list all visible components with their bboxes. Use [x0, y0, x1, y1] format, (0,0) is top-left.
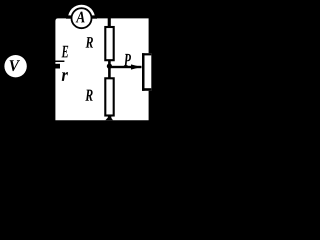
wire: wiper tap from junction toward potentiometer — [111, 66, 142, 68]
ammeter A (body circle) — [72, 8, 92, 28]
voltmeter V (body disc) — [4, 55, 26, 77]
label "R" for resistor R2 — [85, 90, 92, 101]
ammeter A (white halo) — [68, 5, 95, 32]
wiper arrowhead of potentiometer P — [131, 64, 141, 69]
battery E,r: long plate — [50, 61, 64, 63]
node: junction dot between R1 and R2 — [107, 64, 112, 69]
wire: stub from resistor R2 to bottom wire — [108, 116, 111, 120]
wire: R1 bottom to R2 top — [108, 60, 111, 79]
label "P" (wiper) — [124, 54, 131, 66]
battery label "E" (emf) — [62, 46, 69, 58]
battery label "r" (internal resistance) — [62, 72, 68, 81]
potentiometer P: top edge of body — [142, 53, 151, 55]
battery E,r: short thick plate — [50, 64, 60, 69]
node: solder blob at bottom wire junction — [105, 116, 113, 121]
wire: top loop wire crossing ammeter halo — [66, 15, 97, 18]
ammeter label "A" — [76, 12, 85, 23]
potentiometer P: white body interior bulge at panel edge — [148, 53, 151, 91]
circuit interior panel (white) — [55, 18, 148, 120]
potentiometer P: left edge of body — [142, 53, 145, 91]
resistor R2 (lower R) — [105, 78, 113, 115]
potentiometer P: bottom edge of body — [142, 88, 151, 91]
label "R" for resistor R1 — [86, 37, 93, 47]
voltmeter label "V" — [10, 60, 20, 71]
wire: stub from top wire to resistor R1 — [108, 15, 111, 27]
resistor R1 (upper R) — [105, 27, 113, 60]
